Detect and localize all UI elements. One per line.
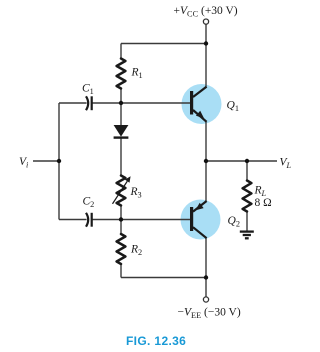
- supply terminal -VEE: [203, 297, 208, 302]
- resistor RL: [243, 181, 252, 212]
- resistor R2: [117, 234, 126, 264]
- wire: output node to VL: [206, 160, 277, 162]
- node: C2 / R3 / R2 / Q2 base junction: [119, 217, 123, 221]
- transistor Q1 (npn): [190, 87, 207, 122]
- supply terminal +VCC: [203, 19, 208, 24]
- wire: RL top lead: [246, 161, 248, 181]
- capacitor C1: [86, 96, 92, 110]
- transistor Q2 (pnp): [190, 201, 207, 238]
- wire: R2 bottom lead: [120, 264, 122, 278]
- node: C1 / R1 / diode / Q1 base junction: [119, 101, 123, 105]
- wire: C1 node horizontal left segment to C1 plate: [59, 102, 87, 104]
- diode D1: [114, 125, 129, 138]
- wire: R3 bottom through C2 node to R2 top: [120, 206, 122, 235]
- node: Vi input junction: [57, 159, 61, 163]
- wire: R1 top lead: [120, 44, 122, 59]
- resistor R1: [117, 59, 126, 89]
- wire: far-left vertical between C1 and C2: [58, 103, 60, 220]
- wire: bottom node to -VEE terminal: [205, 278, 207, 297]
- wire: Q1 emitter to Q2 emitter vertical (output rail): [205, 122, 207, 201]
- svg-text:−VEE (−30 V): −VEE (−30 V): [178, 307, 241, 321]
- wire: diode cathode down to R3: [120, 138, 122, 176]
- svg-text:+VCC (+30 V): +VCC (+30 V): [174, 5, 238, 19]
- capacitor C2: [86, 213, 92, 227]
- wire: bottom horizontal to -VEE rail: [121, 277, 206, 279]
- node: -VEE rail / R2 branch junction: [204, 275, 208, 279]
- svg-text:FIG. 12.36: FIG. 12.36: [126, 334, 186, 348]
- wire: C2 to Q2 base: [92, 219, 190, 221]
- ground (below RL): [240, 232, 254, 239]
- node: RL tap junction: [245, 159, 249, 163]
- resistor R3 (variable): [117, 176, 126, 206]
- transistor Q1 highlight circle: [182, 84, 222, 124]
- R3 adjustment arrow: [113, 176, 131, 204]
- svg-text:8 Ω: 8 Ω: [255, 197, 272, 209]
- transistor Q2 highlight circle: [181, 200, 221, 240]
- wire: C1 to Q1 base: [92, 102, 190, 104]
- wire: C2 node horizontal left segment to C2 plate: [59, 219, 87, 221]
- node: output junction: [204, 159, 208, 163]
- node: VCC rail / R1 branch junction: [204, 41, 208, 45]
- wire: top horizontal from R1 branch to VCC rail: [121, 43, 206, 45]
- wire: Vi input lead: [33, 160, 59, 162]
- wire: RL bottom lead to ground: [246, 212, 248, 231]
- wire: +VCC rail from terminal down to Q1 collector: [205, 24, 207, 86]
- wire: R1 bottom lead down to diode anode: [120, 89, 122, 126]
- wire: Q2 collector down to bottom node: [205, 238, 207, 278]
